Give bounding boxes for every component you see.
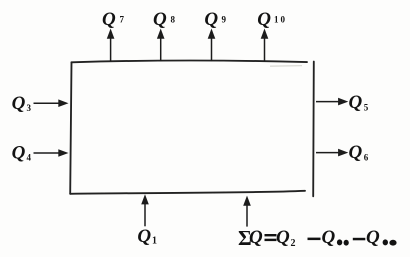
arrow Q1 — [141, 194, 149, 226]
box top edge — [72, 61, 308, 63]
svg-text:Q: Q — [12, 143, 26, 164]
label Q4 — [12, 143, 32, 164]
svg-text:Q: Q — [366, 227, 380, 248]
label Q5 — [349, 92, 369, 113]
svg-text:Q: Q — [349, 92, 363, 113]
svg-text:Q: Q — [12, 93, 26, 114]
svg-text:Q: Q — [249, 227, 263, 248]
svg-text:7: 7 — [120, 15, 125, 25]
arrow Q7 — [107, 29, 115, 62]
svg-text:Q: Q — [257, 9, 271, 30]
equation sigma Q = Q2 - Qes - Qes — [238, 226, 397, 250]
arrow Q3 — [34, 99, 69, 107]
scan shadow under top edge — [270, 65, 302, 68]
svg-text:Q: Q — [102, 9, 116, 30]
arrow Q10 — [261, 29, 269, 62]
arrow sigma-Q inflow — [243, 196, 251, 227]
box left edge — [70, 62, 71, 194]
svg-text:Q: Q — [322, 227, 336, 248]
arrow Q5 — [316, 98, 348, 106]
label Q3 — [12, 93, 32, 114]
box right edge — [312, 62, 315, 197]
svg-text:8: 8 — [171, 15, 176, 25]
arrow Q6 — [316, 149, 348, 157]
arrow Q9 — [208, 29, 216, 62]
label Q6 — [349, 142, 369, 163]
svg-text:9: 9 — [222, 15, 227, 25]
arrow Q4 — [34, 149, 69, 157]
svg-text:3: 3 — [27, 103, 32, 113]
svg-text:1: 1 — [152, 236, 157, 247]
svg-text:Q: Q — [153, 9, 167, 30]
svg-text:2: 2 — [291, 238, 296, 249]
svg-text:Q: Q — [276, 227, 290, 248]
svg-text:5: 5 — [364, 103, 369, 113]
label Q7 — [102, 9, 125, 30]
svg-text:6: 6 — [364, 153, 369, 163]
arrow Q8 — [157, 29, 165, 62]
svg-text:Q: Q — [137, 226, 151, 247]
label Q10 — [257, 9, 287, 30]
svg-text:Q: Q — [349, 142, 363, 163]
label Q1 — [137, 226, 157, 247]
svg-text:4: 4 — [27, 153, 32, 163]
label Q8 — [153, 9, 176, 30]
svg-text:10: 10 — [274, 15, 287, 25]
svg-text:Q: Q — [204, 9, 218, 30]
label Q9 — [204, 9, 226, 30]
box bottom edge — [70, 191, 305, 194]
